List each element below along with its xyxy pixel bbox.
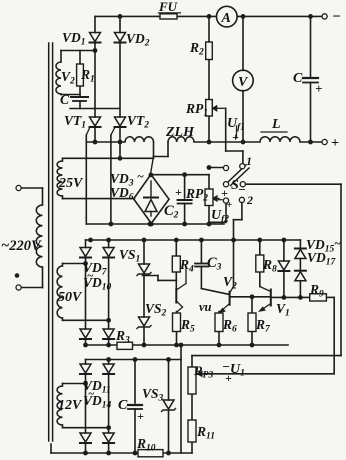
svg-text:+: + (232, 130, 239, 144)
svg-text:C: C (118, 398, 128, 413)
svg-text:50V: 50V (58, 290, 83, 305)
svg-text:−: − (332, 9, 341, 25)
svg-text:+: + (175, 185, 182, 199)
svg-text:C: C (60, 92, 70, 107)
svg-text:1: 1 (246, 154, 252, 168)
svg-text:12V: 12V (58, 398, 83, 413)
svg-text:FU: FU (158, 0, 178, 14)
svg-text:2: 2 (246, 193, 253, 207)
svg-text:ZLH: ZLH (165, 125, 195, 140)
svg-text:+: + (331, 136, 339, 151)
svg-text:~: ~ (137, 169, 144, 183)
svg-text:L: L (271, 117, 281, 132)
svg-text:vu: vu (199, 300, 212, 314)
svg-text:C: C (293, 71, 303, 86)
svg-text:25V: 25V (58, 176, 84, 191)
svg-text:~: ~ (334, 236, 341, 250)
svg-text:+: + (221, 186, 228, 200)
svg-text:~220V: ~220V (1, 238, 42, 254)
svg-text:+: + (225, 371, 232, 385)
svg-text:+: + (315, 81, 322, 96)
svg-text:−: − (238, 182, 246, 197)
svg-text:A: A (221, 11, 231, 26)
svg-text:+: + (137, 409, 144, 423)
svg-text:+: + (226, 199, 232, 211)
